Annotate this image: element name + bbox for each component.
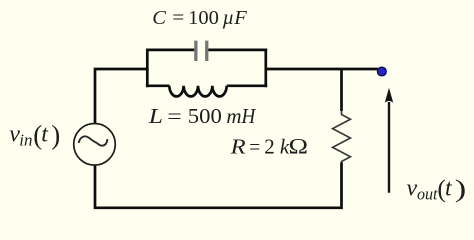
- capacitor C (plates): [194, 41, 208, 61]
- inductor L (coil): [169, 86, 226, 97]
- wire: LC box right edge: [264, 49, 267, 88]
- voltage source sine wave: [79, 136, 108, 145]
- wire: resistor branch top lead: [340, 69, 343, 111]
- wire: resistor branch bottom lead, bottom wire, source bottom lead: [95, 163, 342, 208]
- resistor R (zigzag): [333, 111, 351, 165]
- wire: bottom branch right segment from inductor: [227, 84, 268, 87]
- svg-text:vin(t): vin(t): [9, 120, 60, 150]
- wire: bottom branch left segment to inductor: [146, 84, 170, 87]
- wire: source top lead and horizontal wire to LC box: [95, 69, 149, 124]
- arrow: v_out indicator head: [385, 88, 393, 103]
- node: output node (blue dot): [377, 67, 386, 76]
- wire: top branch right segment from capacitor: [208, 49, 267, 52]
- arrow: v_out indicator shaft: [388, 102, 390, 193]
- wire: main wire from box to output node: [266, 68, 378, 71]
- wire: top branch left segment to capacitor: [146, 49, 194, 52]
- voltage source circle: [74, 124, 116, 166]
- svg-text:R=2kΩ: R=2kΩ: [229, 134, 308, 159]
- wire: LC box left edge: [146, 49, 149, 88]
